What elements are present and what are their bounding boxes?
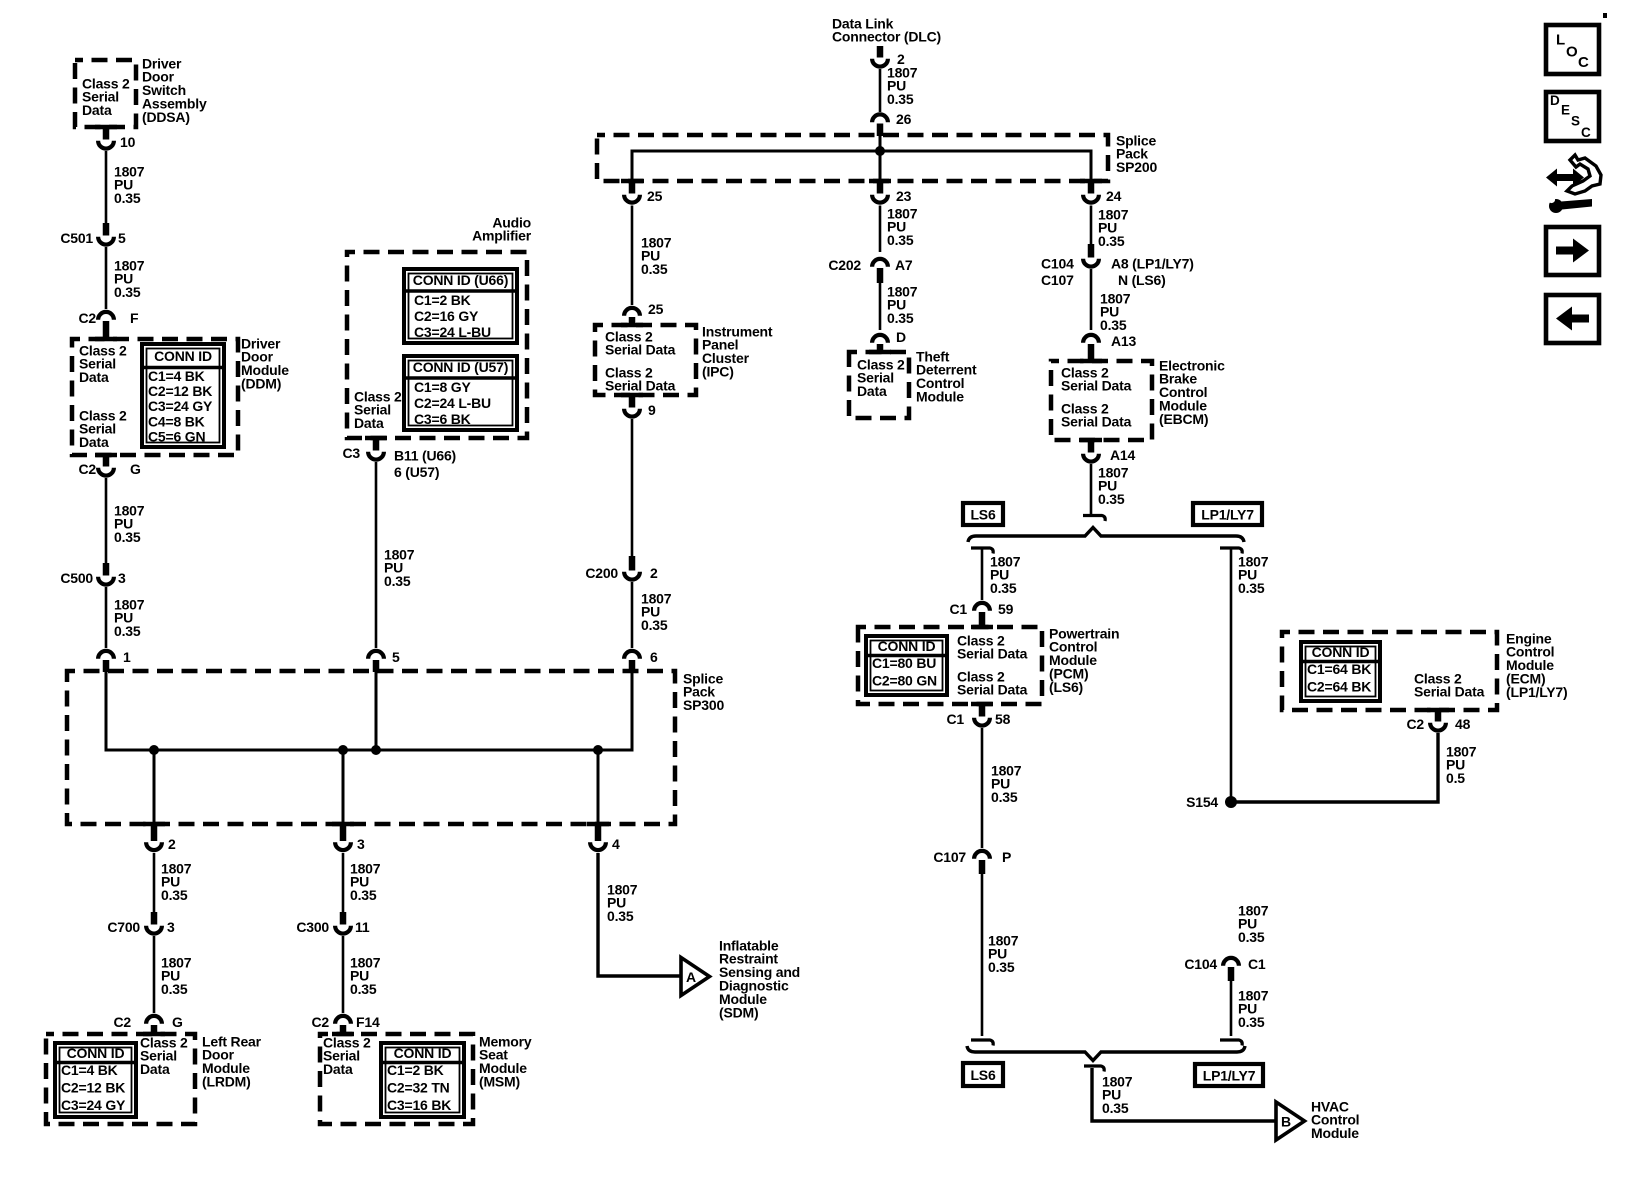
svg-text:48: 48 xyxy=(1455,716,1471,732)
svg-text:59: 59 xyxy=(998,601,1014,617)
svg-text:C501: C501 xyxy=(60,230,93,246)
svg-text:C1=4 BK: C1=4 BK xyxy=(148,368,205,384)
svg-text:C3=6 BK: C3=6 BK xyxy=(414,411,471,427)
svg-text:C107: C107 xyxy=(1041,272,1074,288)
wire C104 to EBCM pin A13 xyxy=(1090,269,1093,330)
connector PCM C1 pin 59 xyxy=(974,603,990,628)
connector DDM C2 pin F xyxy=(98,312,114,339)
wire C500 to SP300 pin 1 xyxy=(105,587,108,648)
wire SP200 pin 25 to IPC pin 25 xyxy=(631,206,634,306)
wire LP1/LY7 branch down to S154 xyxy=(1230,549,1233,802)
connector SP200 pin 25 xyxy=(621,179,643,203)
svg-text:LP1/LY7: LP1/LY7 xyxy=(1203,1068,1256,1084)
junction SP200 at pin 26 drop xyxy=(875,146,885,156)
svg-text:C2=24 L-BU: C2=24 L-BU xyxy=(414,395,491,411)
svg-text:C104: C104 xyxy=(1184,956,1217,972)
svg-text:C2=16 GY: C2=16 GY xyxy=(414,308,479,324)
svg-text:CONN ID: CONN ID xyxy=(67,1045,125,1061)
svg-text:LP1/LY7: LP1/LY7 xyxy=(1201,507,1254,523)
svg-text:D: D xyxy=(896,329,906,345)
svg-text:C: C xyxy=(1578,54,1589,71)
connector SP300 pin 5 xyxy=(368,651,384,672)
svg-text:C2: C2 xyxy=(1407,716,1425,732)
svg-text:3: 3 xyxy=(357,836,365,852)
CONN ID table (DDM) xyxy=(142,344,224,447)
svg-text:C2: C2 xyxy=(114,1014,132,1030)
wire SP300 tap to pin 2 xyxy=(153,750,156,824)
connector C500 pin 3 xyxy=(98,563,114,585)
connector PCM C1 pin 58 xyxy=(974,704,990,726)
svg-text:58: 58 xyxy=(995,711,1011,727)
connector C700 pin 3 xyxy=(146,912,162,934)
svg-text:C3=16 BK: C3=16 BK xyxy=(387,1097,451,1113)
off-page connector triangle B (HVAC) xyxy=(1276,1102,1305,1140)
wire SP300 pin 4 to SDM triangle A xyxy=(598,853,681,976)
connector SP300 pin 3 xyxy=(332,822,354,850)
svg-text:CONN ID: CONN ID xyxy=(154,348,212,364)
svg-text:C3=24 GY: C3=24 GY xyxy=(148,398,213,414)
connector EBCM pin A14 xyxy=(1083,440,1099,462)
svg-text:C202: C202 xyxy=(828,257,861,273)
svg-text:5: 5 xyxy=(392,649,400,665)
connector C107 pin P xyxy=(974,851,990,874)
svg-text:C5=6 GN: C5=6 GN xyxy=(148,429,205,445)
svg-text:S154: S154 xyxy=(1186,794,1218,810)
connector DDM C2 pin G xyxy=(98,455,114,476)
RPO box LP1/LY7 (bottom) xyxy=(1195,1064,1263,1086)
svg-text:E: E xyxy=(1561,103,1570,118)
svg-text:CONN ID: CONN ID xyxy=(878,638,936,654)
svg-text:A14: A14 xyxy=(1110,447,1135,463)
RPO box LP1/LY7 (top) xyxy=(1193,503,1262,525)
connector SP200 pin 24 xyxy=(1080,179,1102,203)
wire SP300 pin 2 to C700 xyxy=(153,853,156,913)
svg-text:C2: C2 xyxy=(312,1014,330,1030)
svg-text:6 (U57): 6 (U57) xyxy=(394,464,439,480)
svg-text:C2=32 TN: C2=32 TN xyxy=(387,1079,450,1095)
module Audio Amplifier (dashed box) xyxy=(347,252,527,440)
svg-text:C107: C107 xyxy=(933,849,966,865)
connector DDSA pin 10 xyxy=(98,127,114,149)
connector SP300 pin 1 xyxy=(98,651,114,672)
mark scan speck top right xyxy=(1603,13,1607,18)
module DDM Driver Door Module (dashed box) xyxy=(72,337,238,458)
svg-text:C1: C1 xyxy=(950,601,968,617)
module PCM Powertrain Control Module (dashed box) xyxy=(858,625,1042,707)
svg-text:CONN ID (U66): CONN ID (U66) xyxy=(413,272,508,288)
icon schematic arrows and wrench xyxy=(1546,155,1601,213)
svg-text:A13: A13 xyxy=(1111,333,1136,349)
svg-text:S: S xyxy=(1571,114,1580,129)
svg-text:C1=2 BK: C1=2 BK xyxy=(414,292,471,308)
svg-text:11: 11 xyxy=(355,919,370,935)
pin label B11 (U66) / 6 (U57) xyxy=(394,447,456,480)
option merge brace (bottom) xyxy=(967,1046,1245,1061)
connector C501 pin 5 xyxy=(98,223,114,245)
svg-text:23: 23 xyxy=(896,188,912,204)
svg-text:2: 2 xyxy=(650,565,658,581)
svg-text:A: A xyxy=(686,969,696,985)
wire ECM pin 48 to S154 xyxy=(1231,733,1438,802)
svg-text:L: L xyxy=(1556,32,1565,49)
CONN ID table (PCM) xyxy=(866,636,947,695)
RPO box LS6 (bottom) xyxy=(963,1063,1003,1086)
svg-text:A7: A7 xyxy=(895,257,913,273)
svg-text:G: G xyxy=(172,1014,183,1030)
module MSM Memory Seat Module (dashed box) xyxy=(320,1032,473,1124)
svg-text:F14: F14 xyxy=(356,1014,380,1030)
connector SP300 pin 6 xyxy=(624,651,640,672)
connector C104/C107 pin A8/N xyxy=(1083,244,1099,267)
svg-text:G: G xyxy=(130,461,141,477)
svg-text:P: P xyxy=(1002,849,1011,865)
wire C700 to LRDM C2 pin G xyxy=(153,936,156,1013)
wire merge brace to HVAC triangle B xyxy=(1084,1066,1276,1121)
svg-text:C500: C500 xyxy=(60,570,93,586)
wire SP300 bus xyxy=(106,672,632,750)
svg-text:4: 4 xyxy=(612,836,620,852)
off-page connector triangle A (SDM) xyxy=(681,958,710,996)
svg-text:C3=24 GY: C3=24 GY xyxy=(61,1097,126,1113)
connector C202 pin A7 xyxy=(872,259,888,283)
module DDSA Driver Door Switch Assembly (dashed box) xyxy=(75,60,136,129)
svg-text:24: 24 xyxy=(1106,188,1122,204)
wire C300 to MSM C2 pin F14 xyxy=(342,936,345,1013)
wire SP200 DLC drop xyxy=(879,136,882,181)
svg-text:C3: C3 xyxy=(343,445,361,461)
svg-text:9: 9 xyxy=(648,402,656,418)
svg-text:C1=64 BK: C1=64 BK xyxy=(1307,661,1371,677)
splice S154 xyxy=(1225,796,1237,808)
wire C501 to DDM C2 pin F xyxy=(105,247,108,309)
wire DLC pin 2 to SP200 pin 26 xyxy=(879,69,882,112)
svg-text:LS6: LS6 xyxy=(970,1067,995,1083)
connector EBCM pin A13 xyxy=(1083,335,1099,362)
connector SP300 pin 2 xyxy=(143,822,165,850)
pin label A8 (LP1/LY7) N (LS6) xyxy=(1111,255,1194,288)
connector DLC pin 2 xyxy=(872,46,888,67)
svg-text:C2: C2 xyxy=(79,461,97,477)
svg-text:3: 3 xyxy=(118,570,126,586)
svg-text:O: O xyxy=(1566,44,1578,61)
svg-text:C1: C1 xyxy=(1248,956,1266,972)
svg-text:D: D xyxy=(1550,93,1560,108)
svg-text:A8 (LP1/LY7): A8 (LP1/LY7) xyxy=(1111,255,1194,271)
option split brace (top) xyxy=(968,528,1244,543)
wire C107 pin P to option merge (LS6) xyxy=(971,874,993,1046)
wire PCM pin 58 to C107 pin P xyxy=(981,728,984,848)
splice pack SP200 (dashed box) xyxy=(597,135,1108,181)
wire SP300 tap to pin 3 xyxy=(342,750,345,824)
icon back arrow box xyxy=(1546,295,1599,343)
connector IPC pin 25 xyxy=(624,308,640,326)
svg-text:C700: C700 xyxy=(107,919,140,935)
svg-text:6: 6 xyxy=(650,649,658,665)
icon forward arrow box xyxy=(1546,227,1599,275)
module ECM Engine Control Module (dashed box) xyxy=(1282,632,1497,712)
wire audio amp to SP300 pin 5 xyxy=(375,462,378,648)
connector LRDM C2 pin G xyxy=(146,1016,162,1035)
svg-text:CONN ID (U57): CONN ID (U57) xyxy=(413,359,508,375)
connector C300 pin 11 xyxy=(335,912,351,934)
svg-text:C300: C300 xyxy=(296,919,329,935)
svg-text:C104: C104 xyxy=(1041,255,1074,271)
connector SP200 pin 23 xyxy=(869,179,891,203)
wire C202 to theft deterrent pin D xyxy=(879,283,882,330)
svg-text:LS6: LS6 xyxy=(970,507,995,523)
connector MSM C2 pin F14 xyxy=(335,1016,351,1035)
junction SP300 tap 3 xyxy=(338,745,348,755)
svg-text:1: 1 xyxy=(123,649,131,665)
RPO box LS6 (top) xyxy=(963,503,1003,525)
svg-text:C200: C200 xyxy=(585,565,618,581)
svg-text:C1=80 BU: C1=80 BU xyxy=(872,655,936,671)
icon DESC box xyxy=(1546,92,1599,141)
wire DDM pin G to C500 xyxy=(105,478,108,564)
module EBCM Electronic Brake Control Module (dashed box) xyxy=(1051,359,1152,443)
svg-text:10: 10 xyxy=(120,134,136,150)
CONN ID table (LRDM) xyxy=(55,1043,136,1117)
svg-text:C: C xyxy=(1581,125,1591,140)
junction SP300 pin5 xyxy=(371,745,381,755)
wire IPC pin 9 to C200 xyxy=(631,419,634,560)
wire SP300 pin5 drop xyxy=(375,672,378,750)
wire SP300 tap to pin 4 xyxy=(597,750,600,824)
CONN ID table (ECM) xyxy=(1301,642,1380,701)
svg-text:C4=8 BK: C4=8 BK xyxy=(148,413,205,429)
connector ECM C2 pin 48 xyxy=(1430,710,1446,731)
svg-text:25: 25 xyxy=(648,301,664,317)
svg-text:CONN ID: CONN ID xyxy=(394,1045,452,1061)
wire SP200 pin 23 to C202 xyxy=(879,206,882,253)
splice pack SP300 (dashed box) xyxy=(67,671,675,824)
svg-text:3: 3 xyxy=(167,919,175,935)
module IPC Instrument Panel Cluster (dashed box) xyxy=(595,323,696,398)
svg-text:C2=12 BK: C2=12 BK xyxy=(148,383,212,399)
svg-text:5: 5 xyxy=(118,230,126,246)
junction SP300 tap 4 xyxy=(593,745,603,755)
svg-text:26: 26 xyxy=(896,111,912,127)
junction SP300 tap 2 xyxy=(149,745,159,755)
wire LS6 branch to PCM C1 pin 59 xyxy=(981,549,984,600)
svg-text:C2=80 GN: C2=80 GN xyxy=(872,672,937,688)
CONN ID (U57) table xyxy=(404,356,517,430)
connector theft deterrent pin D xyxy=(872,335,888,353)
svg-text:C3=24 L-BU: C3=24 L-BU xyxy=(414,324,491,340)
svg-text:F: F xyxy=(130,310,139,326)
svg-text:B11 (U66): B11 (U66) xyxy=(394,447,456,463)
connector SP300 pin 4 xyxy=(587,822,609,850)
svg-text:25: 25 xyxy=(647,188,663,204)
svg-text:2: 2 xyxy=(168,836,176,852)
connector SP200 pin 26 xyxy=(872,114,888,136)
svg-text:B: B xyxy=(1281,1114,1291,1130)
module Theft Deterrent Control Module (dashed box) xyxy=(849,350,909,418)
CONN ID (U66) table xyxy=(404,269,517,343)
connector C200 pin 2 xyxy=(624,556,640,580)
wire EBCM pin A14 to option brace xyxy=(1083,464,1105,521)
svg-text:CONN ID: CONN ID xyxy=(1312,644,1370,660)
svg-text:C1=2 BK: C1=2 BK xyxy=(387,1062,444,1078)
wire LP1/LY7 branch top hat xyxy=(1220,548,1242,554)
svg-text:C2: C2 xyxy=(79,310,97,326)
svg-text:C1=4 BK: C1=4 BK xyxy=(61,1062,118,1078)
wire SP200 bus xyxy=(632,151,1091,181)
connector IPC pin 9 xyxy=(624,395,640,417)
wire C104 pin C1 to option merge (LP1/LY7) xyxy=(1220,981,1242,1046)
svg-text:C1: C1 xyxy=(947,711,965,727)
connector Audio Amp C3 pin B11/6 xyxy=(368,438,384,460)
wire LS6 branch top hat xyxy=(971,548,993,554)
wire C200 to SP300 pin 6 xyxy=(631,582,634,648)
svg-text:C1=8 GY: C1=8 GY xyxy=(414,379,471,395)
wire DDSA pin10 to C501 xyxy=(105,151,108,224)
wire SP300 pin 3 to C300 xyxy=(342,853,345,913)
connector name C104 C107 xyxy=(1041,255,1074,288)
icon LOC box xyxy=(1546,25,1599,74)
wire SP200 pin 24 to C104/C107 xyxy=(1090,206,1093,247)
svg-text:C2=64 BK: C2=64 BK xyxy=(1307,678,1371,694)
CONN ID table (MSM) xyxy=(381,1043,464,1117)
module LRDM Left Rear Door Module (dashed box) xyxy=(46,1032,195,1124)
connector C104 pin C1 xyxy=(1223,958,1239,981)
svg-text:C2=12 BK: C2=12 BK xyxy=(61,1079,125,1095)
svg-text:N (LS6): N (LS6) xyxy=(1118,272,1166,288)
